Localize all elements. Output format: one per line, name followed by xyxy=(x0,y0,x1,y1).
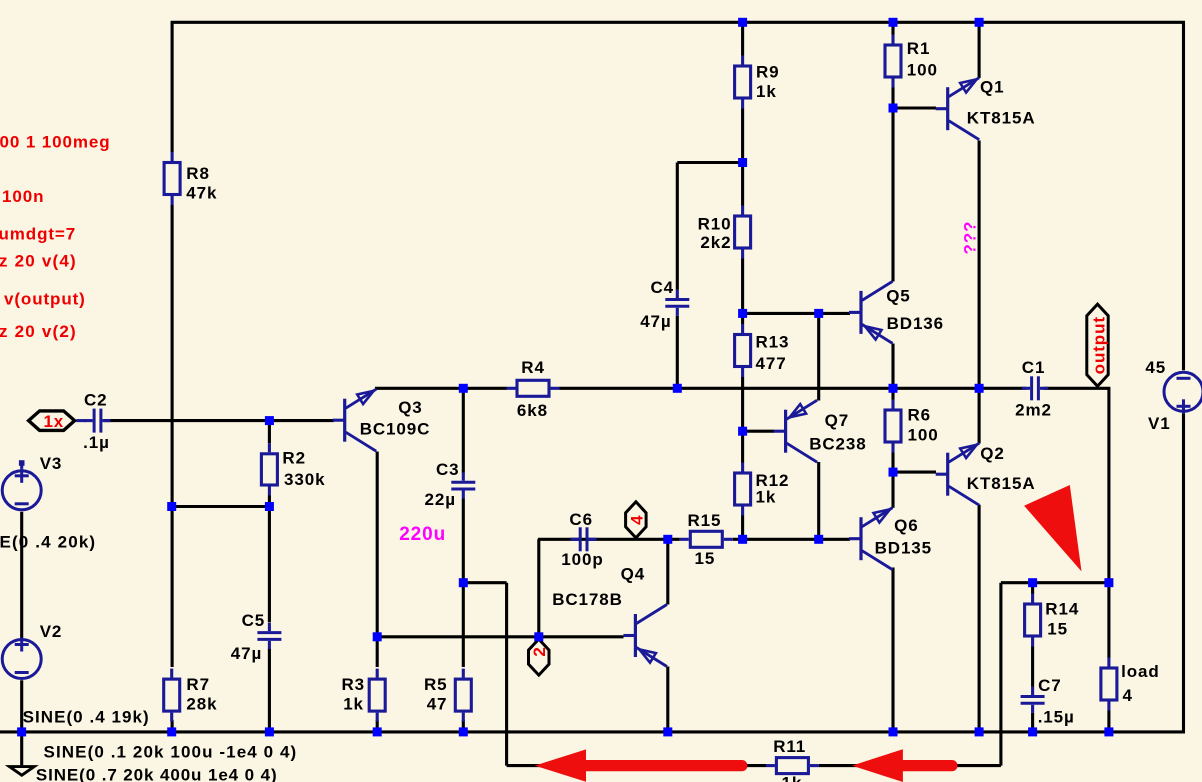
transistor Q4 xyxy=(552,565,667,667)
node junction (538.8,636.8) xyxy=(534,632,543,641)
wire mid rail Q3 collector to R4 xyxy=(375,387,507,390)
wire junction to C5 xyxy=(268,507,271,623)
wire Q6 emitter to ground rail xyxy=(891,568,894,732)
wire node4 line C6 corner to R15 xyxy=(538,538,680,541)
svg-text:28k: 28k xyxy=(186,695,217,714)
wire Q1 base xyxy=(893,106,936,109)
svg-text:220u: 220u xyxy=(399,524,446,545)
wire Q2 base junction to Q6 xyxy=(891,472,894,508)
node junction (377.2,636.8) xyxy=(373,632,382,641)
svg-text:R13: R13 xyxy=(756,333,790,352)
wire R2 top lead xyxy=(268,421,271,444)
wire C3 bottom to feedback corner xyxy=(463,581,506,584)
svg-text:R7: R7 xyxy=(186,675,210,694)
node junction (463.3,582.7) xyxy=(459,578,468,587)
resistor R15 xyxy=(680,511,733,568)
svg-text:???: ??? xyxy=(960,221,979,255)
svg-text:R10: R10 xyxy=(698,215,732,234)
resistor R10 xyxy=(698,206,751,259)
svg-text:BC178B: BC178B xyxy=(552,590,623,609)
node junction (463.3,388.3) xyxy=(459,384,468,393)
voltage source V1 xyxy=(1145,358,1202,433)
resistor R14 xyxy=(1025,594,1080,647)
wire input C2 to Q3 base xyxy=(104,419,334,422)
svg-text:v(output): v(output) xyxy=(4,290,86,309)
wire Q4 emitter riser xyxy=(666,539,669,604)
svg-text:100p: 100p xyxy=(561,550,603,569)
svg-text:47µ: 47µ xyxy=(231,644,262,663)
svg-text:47: 47 xyxy=(427,695,448,714)
annotation arrow left xyxy=(535,749,742,781)
wire R13 top to Q5 base xyxy=(743,312,850,315)
node junction (1032.6,582.7) xyxy=(1028,578,1037,587)
svg-text:15: 15 xyxy=(695,549,716,568)
svg-text:SINE(0 .1 20k 100u -1e4 0 4): SINE(0 .1 20k 100u -1e4 0 4) xyxy=(44,743,298,762)
wire feedback bottom left xyxy=(507,764,766,767)
wire C5 to ground rail xyxy=(268,649,271,732)
svg-text:R14: R14 xyxy=(1045,600,1079,619)
svg-text:Q3: Q3 xyxy=(398,398,422,417)
svg-text:SINE(0 .4 20k): SINE(0 .4 20k) xyxy=(0,533,96,552)
wire mid rail to R6 xyxy=(891,388,894,399)
node junction (269.4,506.5) xyxy=(265,502,274,511)
transistor Q2 xyxy=(936,443,1036,505)
wire output node to R14 xyxy=(1031,583,1034,594)
svg-text:C5: C5 xyxy=(242,611,266,630)
flag node 4 xyxy=(626,502,647,538)
wire output column xyxy=(1107,388,1110,582)
node junction (1108.9,582.7) xyxy=(1104,578,1113,587)
svg-text:C1: C1 xyxy=(1022,358,1046,377)
wire C7 to ground rail xyxy=(1031,713,1034,732)
svg-text:477: 477 xyxy=(756,354,787,373)
svg-text:Q4: Q4 xyxy=(621,565,645,584)
svg-text:C2: C2 xyxy=(84,391,108,410)
resistor R3 xyxy=(342,669,386,722)
svg-text:1k: 1k xyxy=(782,774,803,782)
wire R3 to ground rail xyxy=(376,720,379,732)
node junction (893,472.1) xyxy=(889,468,898,477)
wire Q7 base xyxy=(743,430,774,433)
capacitor C2 xyxy=(83,391,110,453)
wire R10 to R13 xyxy=(741,259,744,325)
wire R1 to Q1 base junction xyxy=(891,88,894,109)
svg-text:.1µ: .1µ xyxy=(83,433,110,452)
svg-text:KT815A: KT815A xyxy=(967,108,1036,127)
svg-text:1k: 1k xyxy=(343,695,364,714)
node junction (893,22.3) xyxy=(889,18,898,27)
svg-text:C6: C6 xyxy=(569,510,593,529)
svg-text:SINE(0 .4 19k): SINE(0 .4 19k) xyxy=(23,708,150,727)
svg-text:SINE(0 .7 20k 400u 1e4 0 4): SINE(0 .7 20k 400u 1e4 0 4) xyxy=(36,766,278,782)
svg-text:KT815A: KT815A xyxy=(967,474,1036,493)
wire node2 to R3 xyxy=(376,637,379,667)
flag node 2 xyxy=(529,639,550,675)
resistor R5 xyxy=(424,669,471,722)
wire Q4 collector to ground rail xyxy=(666,667,669,732)
wire Q2 base xyxy=(893,471,936,474)
svg-text:z 20 v(2): z 20 v(2) xyxy=(0,322,77,341)
annotation arrow output xyxy=(1024,485,1081,571)
wire feedback left vertical xyxy=(505,583,508,766)
wire Q1 emitter to mid rail xyxy=(978,141,981,389)
wire output node to load xyxy=(1107,583,1110,658)
node junction (742.6,313.4) xyxy=(738,309,747,318)
svg-text:4: 4 xyxy=(627,515,646,525)
node junction (171.7,731.9) xyxy=(167,727,176,736)
resistor R6 xyxy=(885,400,939,453)
node junction (742.6,431.2) xyxy=(738,427,747,436)
svg-text:C4: C4 xyxy=(651,278,675,297)
svg-text:R15: R15 xyxy=(688,511,722,530)
node junction (1108.9,731.9) xyxy=(1104,727,1113,736)
svg-text:R3: R3 xyxy=(342,675,366,694)
wire feedback node to R5 xyxy=(462,583,465,667)
svg-text:22µ: 22µ xyxy=(425,490,456,509)
svg-text:V2: V2 xyxy=(40,622,63,641)
resistor load xyxy=(1101,658,1160,711)
transistor Q6 xyxy=(849,508,932,570)
wire R2 bottom link xyxy=(172,505,270,508)
svg-text:2m2: 2m2 xyxy=(1015,401,1052,420)
capacitor C4 xyxy=(640,278,689,331)
node junction (742.6,539.3) xyxy=(738,535,747,544)
svg-text:2k2: 2k2 xyxy=(700,233,731,252)
wire R9 to R10 xyxy=(741,109,744,206)
resistor R13 xyxy=(735,324,790,377)
node junction (269.4,420.6) xyxy=(265,416,274,425)
wire C3 to feedback node xyxy=(462,499,465,583)
wire Q7 collector riser xyxy=(817,313,820,400)
wire load to ground rail xyxy=(1107,711,1110,732)
node junction (742.6,22.3) xyxy=(738,18,747,27)
transistor Q1 xyxy=(936,78,1036,140)
svg-text:6k8: 6k8 xyxy=(517,401,548,420)
node junction (893,108) xyxy=(889,104,898,113)
resistor R1 xyxy=(885,35,938,88)
wire top rail to R1 xyxy=(891,22,894,34)
svg-text:1k: 1k xyxy=(756,488,777,507)
transistor Q7 xyxy=(774,400,867,462)
svg-text:R1: R1 xyxy=(907,39,931,58)
node junction (893,388.3) xyxy=(889,384,898,393)
wire feedback right vertical xyxy=(999,583,1002,766)
wire R8 top lead xyxy=(171,22,174,152)
transistor Q3 xyxy=(333,389,431,451)
wire top rail to Q1 collector xyxy=(978,22,981,78)
svg-text:Q2: Q2 xyxy=(980,444,1004,463)
svg-text:100n: 100n xyxy=(2,187,44,206)
svg-text:BC238: BC238 xyxy=(809,435,866,454)
node junction (818.7,313.4) xyxy=(814,309,823,318)
svg-text:Q5: Q5 xyxy=(886,287,910,306)
svg-text:C7: C7 xyxy=(1038,676,1062,695)
svg-text:R5: R5 xyxy=(424,675,448,694)
wire node4 R15 to Q6 base xyxy=(733,538,850,541)
wire junction to R7 xyxy=(171,507,174,668)
svg-text:R4: R4 xyxy=(521,358,545,377)
wire R5 to ground rail xyxy=(462,720,465,732)
svg-text:45: 45 xyxy=(1145,358,1166,377)
node junction (463.3,731.9) xyxy=(459,727,468,736)
wire R7 to ground rail xyxy=(171,720,174,732)
svg-text:output: output xyxy=(1089,316,1108,374)
wire node2 flag riser xyxy=(537,539,540,637)
svg-text:R2: R2 xyxy=(282,449,306,468)
wire bottom ground rail xyxy=(0,730,1185,733)
wire Q3 emitter down xyxy=(376,452,379,637)
wire R9-R10 tap to C4 xyxy=(677,161,742,164)
svg-text:BD135: BD135 xyxy=(875,539,932,558)
wire R8 to R2 junction xyxy=(171,205,174,507)
wire mid rail to Q2 collector xyxy=(978,388,981,443)
node junction (677.3,388.3) xyxy=(673,384,682,393)
svg-text:.15µ: .15µ xyxy=(1038,708,1075,727)
svg-text:330k: 330k xyxy=(284,470,325,489)
svg-text:umdgt=7: umdgt=7 xyxy=(0,225,76,244)
wire Q7 emitter drop xyxy=(817,462,820,539)
svg-text:V3: V3 xyxy=(40,454,63,473)
svg-text:Q1: Q1 xyxy=(980,78,1004,97)
wire feedback bottom right xyxy=(819,764,1001,767)
capacitor C5 xyxy=(231,611,282,663)
svg-text:1x: 1x xyxy=(43,412,64,431)
wire Q1 base junction to Q5 xyxy=(891,108,894,282)
resistor R4 xyxy=(507,358,560,420)
svg-text:Q6: Q6 xyxy=(894,516,918,535)
node junction (893,731.9) xyxy=(889,727,898,736)
wire Q5 emitter to mid rail xyxy=(891,344,894,389)
node junction (1032.6,731.9) xyxy=(1028,727,1037,736)
voltage source V2 xyxy=(2,622,62,679)
wire Q2 emitter to ground rail xyxy=(978,505,981,732)
node junction (171.7,506.5) xyxy=(167,502,176,511)
wire V2 to ground symbol xyxy=(20,680,23,765)
node junction (818.7,539.3) xyxy=(814,535,823,544)
resistor R9 xyxy=(735,56,780,109)
capacitor C7 xyxy=(1021,676,1075,727)
svg-text:100: 100 xyxy=(908,426,939,445)
svg-text:2: 2 xyxy=(530,646,549,656)
capacitor C6 xyxy=(561,510,603,569)
node junction (667.8,539.3) xyxy=(663,535,672,544)
ground xyxy=(9,767,34,776)
node junction (979.1,22.3) xyxy=(975,18,984,27)
capacitor C1 xyxy=(1015,358,1052,420)
svg-text:1k: 1k xyxy=(756,82,777,101)
wire mid rail to C3 xyxy=(462,388,465,472)
node junction (979.1,388.3) xyxy=(975,384,984,393)
wire R2 to junction xyxy=(268,496,271,507)
wire C4 bottom to mid rail xyxy=(676,316,679,388)
wire feedback top right xyxy=(1001,581,1109,584)
svg-text:R9: R9 xyxy=(756,63,780,82)
node junction (979.1,731.9) xyxy=(975,727,984,736)
wire R6 to Q2 base junction xyxy=(891,453,894,473)
svg-text:BD136: BD136 xyxy=(887,314,944,333)
voltage source V3 xyxy=(2,454,62,510)
node junction (377.2,731.9) xyxy=(373,727,382,736)
svg-text:C3: C3 xyxy=(436,460,460,479)
node junction (269.4,731.9) xyxy=(265,727,274,736)
node junction (742.6,162.5) xyxy=(738,158,747,167)
transistor Q5 xyxy=(849,281,944,343)
svg-text:R11: R11 xyxy=(773,737,806,756)
wire mid rail R4 to C1 xyxy=(560,387,1027,390)
resistor R7 xyxy=(164,669,218,722)
resistor R11 xyxy=(766,737,819,782)
wire mid rail C1 to output corner xyxy=(1044,387,1111,390)
wire C4 top xyxy=(676,163,679,290)
capacitor C3 xyxy=(425,460,476,509)
svg-text:47µ: 47µ xyxy=(640,312,671,331)
node junction (667.8,731.9) xyxy=(663,727,672,736)
svg-text:z 20 v(4): z 20 v(4) xyxy=(0,252,77,271)
wire R12 to node4 xyxy=(741,516,744,540)
resistor R8 xyxy=(164,152,217,205)
node junction (21.6,731.9) xyxy=(17,727,26,736)
resistor R12 xyxy=(735,463,790,516)
flag 1x xyxy=(29,411,86,431)
svg-text:BC109C: BC109C xyxy=(360,420,431,439)
wire node2 line to Q4 base xyxy=(377,635,623,638)
annotation arrow right xyxy=(852,749,952,782)
wire top rail to R9 xyxy=(741,22,744,55)
svg-text:4: 4 xyxy=(1123,686,1133,705)
svg-text:load: load xyxy=(1121,662,1160,681)
svg-text:47k: 47k xyxy=(186,184,217,203)
svg-text:100: 100 xyxy=(907,60,938,79)
wire R14 to C7 xyxy=(1031,647,1034,687)
svg-text:15: 15 xyxy=(1047,620,1068,639)
wire top supply rail xyxy=(171,21,1185,24)
svg-text:Q7: Q7 xyxy=(825,411,849,430)
svg-text:00 1 100meg: 00 1 100meg xyxy=(0,133,111,152)
wire V1 to ground rail xyxy=(1182,413,1185,732)
wire R13 to R12 xyxy=(741,377,744,463)
svg-text:V1: V1 xyxy=(1148,414,1171,433)
svg-text:R6: R6 xyxy=(908,406,932,425)
flag output xyxy=(1087,304,1109,386)
resistor R2 xyxy=(261,443,325,495)
wire right supply column xyxy=(1182,22,1185,370)
wire V3 to V2 xyxy=(20,512,23,638)
svg-text:R8: R8 xyxy=(186,164,210,183)
